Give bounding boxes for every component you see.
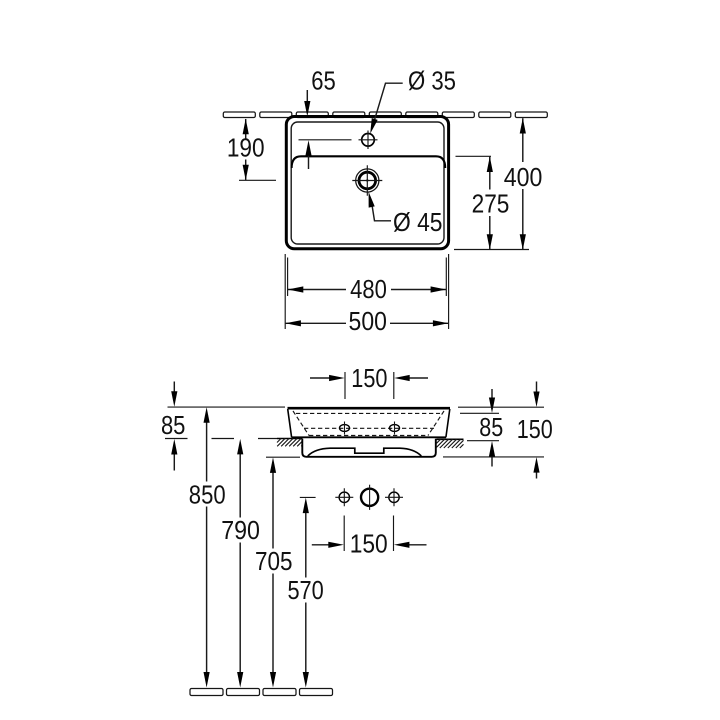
svg-text:705: 705	[255, 548, 293, 576]
extension line left inner (480)	[287, 258, 289, 297]
sink outer outline (top view)	[286, 117, 448, 249]
overflow hole ellipse (front)	[390, 425, 400, 432]
left 85 dimension arrows	[173, 382, 175, 393]
dimension 190 line	[245, 119, 247, 180]
basin back edge line	[292, 156, 446, 168]
tap centerline extension	[299, 139, 352, 141]
right 150 dimension arrows	[536, 382, 538, 394]
wall surface line dashed to the left	[165, 438, 277, 440]
dimension 65 lower arrow	[308, 155, 310, 169]
tap hole (circle)	[362, 134, 375, 147]
wall hatch right	[437, 439, 464, 448]
lower tray outline	[302, 439, 436, 457]
extension line right outer (500)	[448, 254, 450, 329]
right 150: extension lines	[458, 406, 544, 408]
svg-text:480: 480	[350, 276, 387, 304]
dimension 500 line	[286, 322, 449, 324]
svg-text:Ø 45: Ø 45	[393, 209, 443, 237]
svg-text:190: 190	[227, 135, 265, 163]
tap hole crosshair	[359, 131, 378, 150]
dimension 150 lower arrows	[312, 544, 427, 546]
dimension 480 line	[288, 289, 446, 291]
leader line for drain hole	[372, 203, 391, 221]
wall hatch left	[277, 439, 303, 447]
drain hole outer circle	[356, 169, 379, 192]
svg-text:500: 500	[349, 308, 387, 336]
dimension 150 top: extension lines	[345, 372, 394, 399]
705 extension line	[266, 456, 300, 458]
dimension 400 line	[522, 118, 524, 249]
front body outline	[288, 407, 451, 410]
dimension 790 line	[239, 454, 241, 674]
drain center dot	[366, 179, 368, 181]
dimension 850 line	[206, 422, 208, 673]
drain hole main circle	[359, 172, 376, 189]
dimension 150 top arrows	[310, 377, 428, 379]
dimension 65 upper arrow	[306, 90, 308, 102]
dimension 275 line	[489, 157, 491, 250]
svg-text:150: 150	[350, 530, 388, 558]
svg-text:85: 85	[161, 412, 186, 440]
leader line for tap hole	[373, 83, 403, 125]
svg-text:790: 790	[221, 517, 260, 545]
tray underside profile	[308, 448, 422, 456]
wall section strip (top view)	[223, 112, 547, 118]
right bolt hole crosshair	[385, 488, 403, 506]
left bolt hole crosshair	[335, 488, 353, 506]
extension tick at basin rim level	[456, 155, 492, 157]
dimension 150 lower: extension lines	[344, 516, 393, 552]
dimension 570 line	[305, 512, 307, 673]
right 85: extension lines	[460, 412, 499, 414]
svg-text:850: 850	[189, 482, 226, 510]
drain crosshair	[352, 165, 382, 195]
sink inner rim line (top view)	[291, 122, 444, 244]
mounting bolt holes	[339, 492, 349, 502]
drain pipe centerline	[369, 485, 371, 510]
shared bottom extension line	[454, 249, 529, 251]
svg-text:Ø 35: Ø 35	[408, 68, 456, 96]
left 85: extension line top	[168, 406, 286, 408]
extension line right inner (480)	[445, 258, 447, 297]
svg-text:150: 150	[517, 416, 553, 444]
svg-text:150: 150	[351, 365, 387, 393]
svg-text:65: 65	[311, 68, 336, 96]
svg-text:570: 570	[287, 577, 323, 605]
right 85 dimension arrows	[491, 389, 493, 399]
hidden basin interior (dashed)	[293, 411, 444, 436]
570 extension line	[300, 496, 316, 498]
extension tick at drain level	[239, 179, 276, 181]
svg-text:275: 275	[472, 191, 510, 219]
dimension 705 line	[272, 472, 274, 673]
floor strip	[190, 689, 333, 696]
tap hole ellipse (front)	[340, 425, 350, 432]
svg-text:400: 400	[504, 164, 543, 192]
svg-text:85: 85	[479, 414, 503, 442]
extension line left outer (500)	[284, 254, 286, 329]
